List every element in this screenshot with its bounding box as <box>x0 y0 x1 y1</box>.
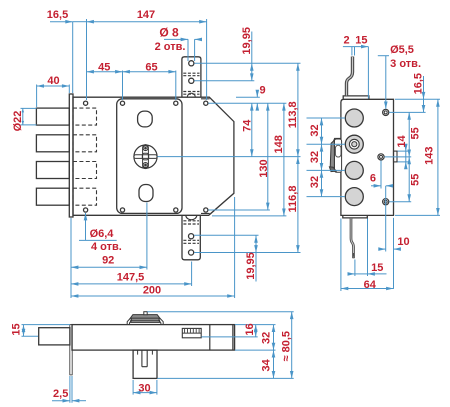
bolt 1 <box>36 108 69 125</box>
svg-text:2,5: 2,5 <box>53 388 68 400</box>
body <box>72 325 235 351</box>
svg-text:113,8: 113,8 <box>287 101 299 128</box>
svg-text:Ø6,4: Ø6,4 <box>90 228 115 240</box>
dim 147,5 <box>191 262 193 287</box>
bolt 3 <box>36 162 69 179</box>
mounting hole top row <box>84 101 88 105</box>
SV dim 15 bottom <box>355 219 368 277</box>
svg-text:116,8: 116,8 <box>287 186 299 213</box>
dim 45 / 65 <box>87 71 123 73</box>
svg-text:19,95: 19,95 <box>241 27 253 55</box>
dim 9 <box>256 92 258 98</box>
svg-text:32: 32 <box>309 124 321 136</box>
cylinder cam protrusion <box>329 138 341 172</box>
top oval (handle hole) <box>138 111 153 127</box>
svg-text:Ø22: Ø22 <box>12 111 24 132</box>
bottom oval (cylinder hole) <box>139 185 153 202</box>
svg-text:16,5: 16,5 <box>413 73 425 94</box>
svg-text:30: 30 <box>138 382 150 394</box>
BV dim 32 / 34 <box>273 325 275 351</box>
key slot <box>182 328 201 337</box>
SV dim 16,5 <box>423 76 425 99</box>
SV ext horizontals right <box>395 98 440 100</box>
svg-text:15: 15 <box>371 262 383 274</box>
dim 92 <box>146 203 148 270</box>
svg-text:64: 64 <box>364 279 377 291</box>
svg-text:32: 32 <box>309 176 321 188</box>
bolt 2 <box>36 135 69 152</box>
bolt 3 hidden outline <box>73 162 97 179</box>
BV dim 16 <box>255 325 257 337</box>
dim 19,95 top <box>251 32 253 64</box>
SV dim 10 <box>393 218 395 289</box>
svg-text:15: 15 <box>355 35 367 47</box>
bolt 4 hidden outline <box>73 188 97 205</box>
svg-text:Ø 8: Ø 8 <box>159 25 179 39</box>
svg-text:16: 16 <box>244 323 256 335</box>
keyhole mechanism <box>134 145 157 168</box>
svg-text:4 отв.: 4 отв. <box>91 241 122 253</box>
BV dim 15 left <box>22 325 71 337</box>
dim 116,8 <box>297 157 299 253</box>
svg-text:32: 32 <box>261 332 273 344</box>
BV dim 30 <box>133 380 157 395</box>
svg-text:147,5: 147,5 <box>117 271 145 283</box>
top bent strip <box>347 57 353 96</box>
bottom tab <box>182 215 200 259</box>
cover plate <box>117 99 182 214</box>
svg-text:55: 55 <box>410 127 422 139</box>
svg-text:40: 40 <box>47 75 59 87</box>
BV right ext horizontals <box>147 311 294 313</box>
SV: Ø5,5 leader <box>378 55 389 57</box>
dim 40 <box>37 85 70 87</box>
bottom ledge <box>343 215 368 218</box>
svg-text:10: 10 <box>397 236 409 248</box>
FV right side ext horizontals <box>194 62 300 64</box>
svg-text:130: 130 <box>258 159 270 177</box>
top tab <box>182 57 201 97</box>
svg-text:147: 147 <box>137 9 155 21</box>
svg-text:74: 74 <box>241 119 253 132</box>
svg-text:32: 32 <box>309 151 321 163</box>
svg-text:15: 15 <box>11 323 23 335</box>
faceplate edge <box>70 325 72 375</box>
dim 113,8 <box>297 63 299 156</box>
cylinder housing below <box>133 350 157 378</box>
dim 130 <box>267 103 269 210</box>
svg-text:14: 14 <box>396 135 408 148</box>
svg-text:2 отв.: 2 отв. <box>155 41 186 53</box>
FV: ext verticals top <box>72 22 74 93</box>
dim Ø8 leader <box>164 38 188 40</box>
SV dim 32x3 left <box>307 118 346 197</box>
mounting hole bottom row <box>84 208 88 212</box>
svg-text:3 отв.: 3 отв. <box>390 58 421 70</box>
bolt 2 hidden outline <box>73 135 97 152</box>
dim 147 <box>87 21 207 23</box>
SV dim 143 <box>437 99 439 215</box>
svg-text:2: 2 <box>344 35 350 47</box>
svg-text:19,95: 19,95 <box>245 252 257 280</box>
side body plate <box>341 99 394 215</box>
screw holes <box>383 109 389 115</box>
dim 74 <box>251 103 253 156</box>
svg-text:92: 92 <box>102 255 114 267</box>
bolt circles <box>345 109 363 127</box>
divider <box>209 325 211 351</box>
top ledge <box>343 96 369 99</box>
inner right edge line <box>232 325 234 351</box>
bolt 1 hidden outline <box>73 108 97 125</box>
dim 16,5 <box>50 21 73 23</box>
SV dim 6 <box>381 161 386 252</box>
dim Ø6,4 leader <box>85 213 87 240</box>
SV dim 64 <box>340 219 342 292</box>
BV dim ~80,5 <box>291 312 293 379</box>
svg-text:≈ 80,5: ≈ 80,5 <box>281 331 293 362</box>
dim Ø22 <box>21 108 37 125</box>
handle hub (hump) <box>127 312 163 325</box>
svg-text:Ø5,5: Ø5,5 <box>390 44 414 56</box>
svg-text:65: 65 <box>145 61 157 73</box>
BV dim 2,5 <box>70 376 72 403</box>
bolt 4 <box>36 188 69 205</box>
SV: dim 2 / 15 top <box>343 46 369 48</box>
cover edge continuation <box>201 99 210 214</box>
svg-text:34: 34 <box>261 358 273 371</box>
dim 148 <box>283 103 285 216</box>
svg-text:143: 143 <box>424 147 436 165</box>
svg-text:6: 6 <box>370 172 376 184</box>
dim 19,95 bottom <box>255 235 257 252</box>
bottom bent strip <box>351 218 354 258</box>
SV dim 55 / 55 <box>408 112 410 156</box>
svg-text:16,5: 16,5 <box>47 9 68 21</box>
dim 200 <box>70 218 72 298</box>
svg-text:200: 200 <box>143 285 161 297</box>
faceplate <box>69 94 73 217</box>
latch notch on right edge <box>394 151 398 162</box>
lock base plate <box>73 97 234 215</box>
svg-text:55: 55 <box>410 174 422 186</box>
SV dim 14 <box>398 151 410 162</box>
svg-text:148: 148 <box>273 135 285 153</box>
bolt <box>39 328 70 345</box>
svg-text:45: 45 <box>98 61 110 73</box>
svg-text:9: 9 <box>259 84 265 96</box>
